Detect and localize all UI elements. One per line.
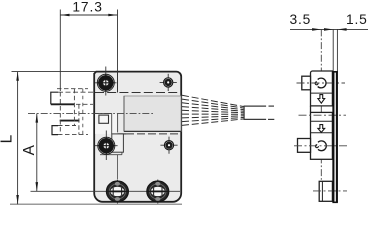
circle1 center line: [297, 82, 346, 84]
internal shelf: [95, 112, 112, 114]
svg-text:A: A: [21, 144, 38, 155]
prong upper thick edge: [51, 103, 75, 105]
dim mid arrow: [324, 28, 333, 31]
hex screw A center: [116, 180, 118, 204]
internal edge: [112, 133, 126, 135]
svg-text:L: L: [0, 134, 16, 143]
prong hidden top: [57, 88, 88, 90]
indicator circle 1: [318, 78, 326, 88]
dim A arrow bottom: [36, 182, 39, 191]
bottom datum line: [10, 203, 182, 205]
lower clamp block: [319, 181, 332, 201]
prong hidden vertical a: [59, 92, 61, 135]
center line horizontal mid: [28, 113, 155, 115]
square hole: [99, 115, 109, 123]
circle2 center line: [294, 145, 348, 147]
dim L arrow bottom: [16, 195, 19, 204]
prong hidden bottom: [58, 134, 88, 136]
prong lower cap: [52, 126, 58, 135]
center lines pin2: [168, 137, 170, 154]
screw R2: [98, 137, 115, 154]
dim 17.3 ext left: [59, 10, 61, 92]
side mid center line: [299, 114, 347, 116]
prong hidden vertical d: [82, 89, 84, 135]
protrusion 1: [302, 76, 311, 90]
dim 3.5 arrow: [312, 28, 321, 31]
edge to screw A: [116, 155, 118, 179]
recess: [124, 96, 181, 131]
arrow symbol 2: [318, 125, 325, 133]
dim 17.3 ext right: [117, 10, 119, 72]
side view: dim line 3.5/1.5: [290, 28, 368, 30]
pin P1: [164, 78, 173, 87]
body (front view): [94, 72, 181, 202]
hex screw B center: [157, 180, 159, 204]
side center line vertical: [320, 29, 322, 199]
center lines screw1: [105, 67, 107, 96]
dim 17.3 arrow left: [60, 14, 69, 17]
dim L line: [17, 72, 19, 205]
dim 17.3 arrow right: [108, 14, 117, 17]
prong hidden vertical b: [73, 89, 75, 126]
prong hidden lower: [58, 125, 76, 127]
ext line plate right: [336, 29, 338, 72]
hex screw A: [106, 181, 128, 202]
dim A arrow top: [36, 113, 39, 122]
light pocket area: [95, 113, 118, 133]
dim 1.5 arrow: [337, 28, 346, 31]
dim A line: [36, 113, 38, 191]
prong thick lower edge: [60, 120, 80, 122]
screw R1: [97, 74, 114, 91]
clamp inner edge: [321, 181, 323, 201]
prong hidden vertical c: [78, 104, 80, 134]
clamp center line: [313, 190, 347, 192]
ext line plate left: [332, 29, 334, 72]
hidden line bottom: [126, 133, 180, 135]
dim L arrow top: [16, 72, 19, 81]
indicator circle 2: [318, 141, 326, 151]
lead wires: [182, 95, 244, 125]
mounting plate: [332, 72, 334, 203]
pin P2: [164, 141, 173, 150]
module2 divider: [311, 120, 333, 122]
screw row center line: [31, 190, 181, 192]
arrow symbol 1: [318, 95, 325, 104]
svg-text:3.5: 3.5: [290, 12, 312, 27]
dim 17.3 line: [60, 14, 117, 16]
prong hidden line: [58, 91, 93, 93]
center lines pin1: [167, 74, 169, 91]
svg-text:1.5: 1.5: [346, 12, 368, 27]
cable sheath: [244, 106, 266, 119]
dim L ext top: [12, 71, 96, 73]
svg-text:17.3: 17.3: [72, 0, 102, 15]
protrusion 2: [298, 139, 311, 153]
cable continuation: [269, 105, 275, 107]
side module 1: [311, 71, 333, 106]
center lines screw2: [105, 131, 107, 161]
side module 2: [311, 112, 333, 159]
prong hidden mid: [76, 103, 93, 105]
pocket right of screw2: [112, 134, 124, 152]
module joint edge: [310, 106, 312, 113]
hex screw B: [147, 181, 169, 202]
prong upper cap: [51, 92, 58, 104]
hidden line top: [95, 92, 180, 94]
module1 divider: [311, 92, 333, 94]
